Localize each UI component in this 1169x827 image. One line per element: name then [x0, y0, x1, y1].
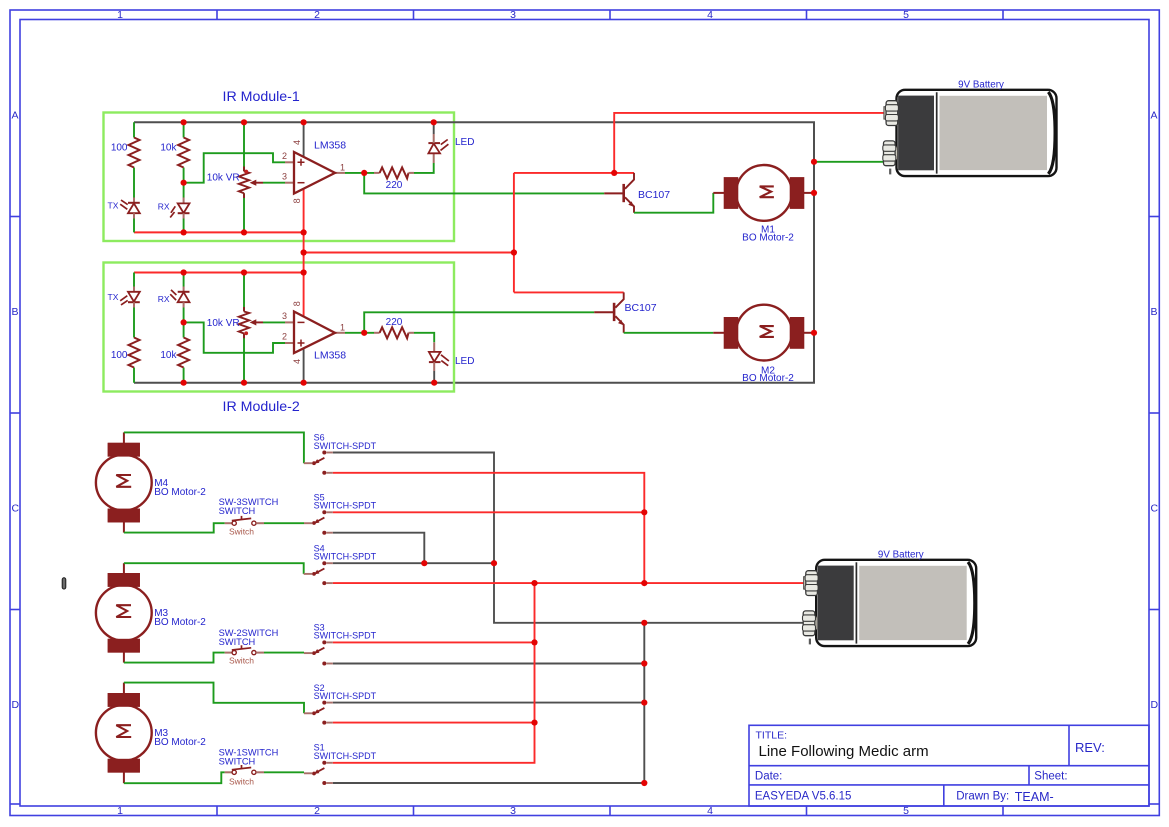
- svg-text:BO Motor-2: BO Motor-2: [742, 373, 794, 384]
- svg-text:8: 8: [292, 198, 302, 203]
- wire: S6 top throw (dark): [333, 453, 494, 564]
- svg-text:Date:: Date:: [755, 770, 783, 782]
- wire col3 module1 (VR column): [243, 122, 245, 232]
- svg-text:A: A: [1151, 110, 1158, 122]
- wire: M4+ to S6 pole: [124, 432, 304, 463]
- wire: SW-2 to S3 pole: [264, 652, 304, 654]
- switch SW-1 SWITCH: [225, 765, 264, 774]
- ground rail (top dark wire of module 1, part of battery- loop): [134, 122, 814, 382]
- battery BT2 9V Battery: [803, 560, 977, 646]
- wire: V+ to Q1 collector: [514, 172, 634, 174]
- RX photodiode (module 2): [170, 287, 189, 308]
- svg-text:LED: LED: [455, 356, 474, 367]
- junction dots module 1: [181, 119, 437, 235]
- wire: M4- to SW-3: [124, 523, 225, 532]
- svg-text:220: 220: [386, 180, 403, 191]
- svg-text:8: 8: [292, 301, 302, 306]
- junction dots lower section: [421, 509, 647, 786]
- wire: op-amp2 output node: [345, 332, 374, 334]
- wire: VR2 wiper to op-amp2 pin 3: [263, 321, 285, 323]
- junction dot V+ trunk: [511, 249, 517, 255]
- svg-text:BO Motor-2: BO Motor-2: [154, 617, 206, 628]
- svg-text:D: D: [12, 699, 20, 711]
- svg-text:1: 1: [117, 9, 123, 21]
- svg-text:SWITCH: SWITCH: [219, 757, 256, 767]
- svg-text:Drawn By:: Drawn By:: [956, 791, 1009, 803]
- wire: S4 top throw (dark): [333, 562, 494, 564]
- TX photodiode (module 2): [120, 287, 140, 308]
- wire: S1 top throw riser (red): [333, 583, 535, 763]
- svg-text:SWITCH-SPDT: SWITCH-SPDT: [314, 552, 377, 562]
- svg-text:4: 4: [707, 805, 713, 817]
- svg-text:BC107: BC107: [625, 302, 657, 314]
- motor M1 BO Motor-2: [713, 165, 814, 221]
- wire: S2 top throw (dark): [333, 702, 645, 704]
- svg-text:Line Following Medic arm: Line Following Medic arm: [759, 743, 929, 760]
- wire: SW-1 to S1 pole: [264, 771, 304, 773]
- switch S2 SWITCH-SPDT: [304, 701, 333, 725]
- svg-text:TITLE:: TITLE:: [756, 730, 788, 742]
- wire: S1 bottom throw (dark): [333, 782, 645, 784]
- junction dot M1 right: [811, 190, 817, 196]
- svg-text:EASYEDA V5.6.15: EASYEDA V5.6.15: [755, 791, 852, 803]
- battery BT1 9V Battery: [883, 90, 1057, 176]
- wire: battery+ feed: [614, 113, 886, 173]
- svg-text:1: 1: [340, 322, 345, 332]
- LED2 (module 2): [429, 342, 449, 382]
- wire: M3b- to SW-1: [124, 772, 225, 783]
- svg-text:220: 220: [386, 317, 403, 328]
- potentiometer 10k VR (module 1): [239, 167, 263, 199]
- svg-text:D: D: [1151, 699, 1159, 711]
- IR Module-2 boundary box: [104, 263, 455, 392]
- svg-text:2: 2: [282, 332, 287, 342]
- svg-text:4: 4: [292, 140, 302, 145]
- wire: Q2 emitter to M2: [624, 332, 714, 334]
- switch SW-2 SWITCH: [225, 645, 264, 654]
- wire: 220 to LED2: [414, 333, 434, 343]
- svg-text:SWITCH-SPDT: SWITCH-SPDT: [314, 691, 377, 701]
- wire: S4 bottom throw / battery2 positive (red): [333, 582, 806, 584]
- svg-text:10k VR: 10k VR: [207, 318, 240, 329]
- wire: M3+ to S4 pole: [124, 563, 304, 574]
- TX photodiode (module 1): [120, 198, 140, 219]
- junction dot collector feed: [611, 170, 617, 176]
- wire: V+ to Q2 collector: [514, 291, 624, 293]
- svg-text:SWITCH-SPDT: SWITCH-SPDT: [314, 631, 377, 641]
- svg-text:B: B: [1151, 306, 1158, 318]
- switch S5 SWITCH-SPDT: [304, 510, 333, 534]
- svg-text:RX: RX: [158, 202, 170, 212]
- switch SW-3 SWITCH: [225, 516, 264, 525]
- svg-text:2: 2: [314, 805, 320, 817]
- wire: S6 bottom throw (red): [333, 473, 645, 583]
- svg-text:Switch: Switch: [229, 777, 254, 787]
- V+ rail (module1 bottom red wire): [134, 231, 304, 233]
- wire: dark trunk x=644: [643, 623, 645, 783]
- svg-text:BO Motor-2: BO Motor-2: [154, 487, 206, 498]
- resistor 100 (module 1): [129, 138, 140, 168]
- LED1 (module 1): [428, 122, 448, 163]
- potentiometer 10k VR (module 2): [239, 307, 263, 338]
- svg-text:BO Motor-2: BO Motor-2: [154, 737, 206, 748]
- wire: VR wiper to op-amp pin 3: [263, 182, 285, 184]
- motor M4 BO Motor-2: [108, 432, 139, 532]
- svg-text:4: 4: [707, 9, 713, 21]
- svg-text:RX: RX: [158, 294, 170, 304]
- svg-text:Sheet:: Sheet:: [1034, 770, 1067, 782]
- svg-text:1: 1: [117, 805, 123, 817]
- V+ rail (module2 top red wire): [134, 272, 304, 274]
- wire col1 module2: [133, 273, 135, 383]
- svg-text:IR Module-1: IR Module-1: [223, 89, 300, 105]
- svg-text:5: 5: [903, 9, 909, 21]
- V+ trunk wire: [513, 173, 515, 293]
- svg-text:100: 100: [111, 142, 128, 153]
- svg-text:2: 2: [314, 9, 320, 21]
- resistor 100 (module 2): [129, 338, 140, 368]
- svg-text:1: 1: [340, 162, 345, 172]
- motor M2 BO Motor-2: [713, 305, 814, 361]
- title block: [749, 725, 1149, 806]
- wire: S3 top throw (red): [333, 641, 535, 643]
- switch S4 SWITCH-SPDT: [304, 561, 333, 585]
- motor M3 BO Motor-2 (bottom): [108, 683, 139, 784]
- switch S6 SWITCH-SPDT: [304, 451, 333, 475]
- wire: op-amp1 output to Q1 base: [364, 173, 604, 194]
- resistor 220 (module 1): [374, 167, 414, 178]
- svg-text:2: 2: [282, 151, 287, 161]
- svg-text:3: 3: [282, 171, 287, 181]
- svg-text:LM358: LM358: [314, 350, 346, 362]
- op-amp U1A LM358 (module 1): [285, 122, 345, 252]
- stray capsule mark: [62, 578, 66, 589]
- svg-text:10k: 10k: [160, 350, 177, 361]
- svg-text:LED: LED: [455, 137, 474, 148]
- svg-text:10k VR: 10k VR: [207, 172, 240, 183]
- svg-text:SWITCH: SWITCH: [219, 506, 256, 516]
- svg-text:3: 3: [510, 805, 516, 817]
- resistor 10k (module 2): [178, 338, 189, 368]
- wire: battery1 negative (green): [814, 154, 884, 162]
- wire col3 module2 (VR column): [243, 273, 245, 383]
- wire col1 module1: [133, 122, 135, 232]
- svg-text:SWITCH-SPDT: SWITCH-SPDT: [314, 501, 377, 511]
- wire: 220 to LED1: [414, 163, 434, 173]
- IR Module-1 boundary box: [104, 113, 455, 242]
- svg-text:10k: 10k: [160, 142, 177, 153]
- switch S3 SWITCH-SPDT: [304, 640, 333, 665]
- svg-text:C: C: [1151, 503, 1159, 515]
- op-amp U1B LM358 (module 2): [285, 253, 345, 383]
- resistor 10k (module 1): [178, 138, 189, 168]
- svg-text:Switch: Switch: [229, 656, 254, 666]
- wire: S3 bottom throw (dark): [333, 663, 645, 665]
- motor M3 BO Motor-2 (middle): [108, 563, 139, 662]
- svg-text:SWITCH-SPDT: SWITCH-SPDT: [314, 441, 377, 451]
- svg-text:3: 3: [282, 311, 287, 321]
- svg-text:Switch: Switch: [229, 526, 254, 536]
- wire: M3- to SW-2: [124, 653, 225, 663]
- RX photodiode (module 1): [170, 198, 189, 219]
- svg-text:LM358: LM358: [314, 139, 346, 151]
- switch S1 SWITCH-SPDT: [304, 761, 333, 785]
- wire: SW-3 to S5 pole: [264, 522, 304, 524]
- wire: RX junction to op-amp pin 2: [184, 153, 285, 183]
- transistor Q1 BC107: [604, 173, 634, 213]
- svg-text:REV:: REV:: [1075, 740, 1105, 755]
- svg-text:C: C: [12, 503, 20, 515]
- svg-text:BO Motor-2: BO Motor-2: [742, 232, 794, 243]
- junction dot M2 right: [811, 330, 817, 336]
- svg-text:A: A: [12, 110, 19, 122]
- svg-text:3: 3: [510, 9, 516, 21]
- wire: battery2 negative feed (dark): [494, 563, 805, 623]
- wire: M3b+ to S2 pole: [124, 683, 304, 714]
- transistor Q2 BC107: [594, 292, 624, 332]
- wire: op-amp2 output to Q2 base: [364, 312, 594, 333]
- svg-text:9V Battery: 9V Battery: [878, 549, 924, 560]
- svg-text:4: 4: [292, 359, 302, 364]
- wire col2 module1: [183, 122, 185, 232]
- svg-text:SWITCH-SPDT: SWITCH-SPDT: [314, 751, 377, 761]
- wire: S5 top throw (red): [333, 511, 645, 513]
- svg-text:TX: TX: [108, 292, 119, 302]
- svg-text:9V Battery: 9V Battery: [958, 79, 1004, 90]
- junction dot pin8 rail: [301, 249, 307, 255]
- wire: Q1 emitter to M1: [634, 193, 713, 213]
- svg-text:SWITCH: SWITCH: [219, 637, 256, 647]
- svg-text:BC107: BC107: [638, 189, 670, 201]
- wire col2 module2: [183, 273, 185, 383]
- junction dot battery1 negative: [811, 159, 817, 165]
- wire: S5 bottom throw (dark): [333, 533, 425, 564]
- junction dots module 2: [181, 269, 438, 385]
- svg-text:B: B: [12, 306, 19, 318]
- svg-text:100: 100: [111, 350, 128, 361]
- wire: S2 bottom throw (red): [333, 722, 535, 724]
- svg-text:IR Module-2: IR Module-2: [223, 399, 300, 415]
- wire: op-amp1 output node: [345, 172, 374, 174]
- V+ mid rail between modules: [304, 252, 514, 254]
- svg-text:TEAM-: TEAM-: [1015, 790, 1054, 804]
- svg-text:TX: TX: [108, 200, 119, 210]
- wire: RX junction to op-amp2 pin 2: [184, 322, 285, 352]
- resistor 220 (module 2): [374, 327, 414, 338]
